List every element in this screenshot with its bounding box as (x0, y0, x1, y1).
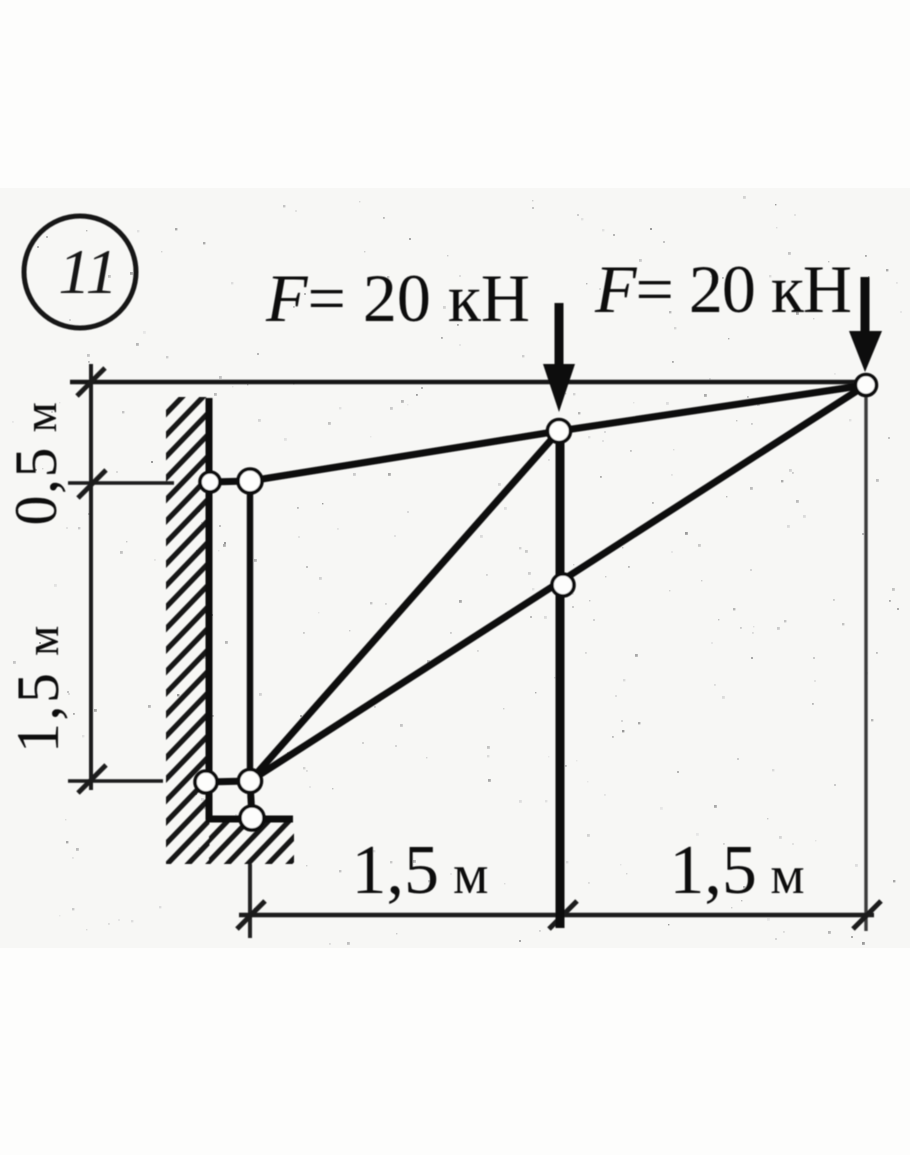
problem number circle (24, 216, 136, 328)
node B1 pin at wall bottom (195, 771, 217, 793)
wall hatching (160, 364, 214, 915)
member B2-C diagonal (250, 431, 559, 781)
scan noise speckles (12, 196, 902, 945)
node D (552, 574, 574, 596)
tick slash bottom at x=250 (237, 901, 265, 929)
tick slash top-left (77, 368, 105, 396)
node B3 support pin (240, 806, 264, 830)
force arrow 1 head (543, 364, 575, 412)
link B1-B2 (206, 781, 250, 782)
node A1 pin at wall top (200, 472, 220, 492)
node C (548, 420, 571, 443)
node E (856, 375, 877, 396)
extension line at y=483 (68, 481, 174, 484)
member B2-D-E bottom chord (250, 385, 866, 781)
tick slash bottom at x=866 (853, 901, 881, 929)
scan band tint (0, 188, 910, 948)
svg-text:1,5 м: 1,5 м (352, 832, 489, 909)
force arrow 2 head (849, 331, 882, 372)
dimension line vertical left (89, 364, 93, 790)
force arrow 2 shaft (861, 277, 870, 338)
force arrow 1 shaft (555, 303, 564, 372)
tick slash at 0.5m mark (78, 470, 106, 498)
tick slash at bottom-left mark (78, 765, 106, 793)
ground hatching under support (160, 820, 331, 870)
extension line below support x=250 (248, 864, 252, 938)
svg-text:11: 11 (58, 236, 117, 307)
extension line at y=781 (68, 779, 163, 782)
top chord line / dimension top line (70, 380, 866, 385)
member A2-C top chord left (250, 431, 559, 481)
svg-text:F= 20 кН: F= 20 кН (265, 260, 530, 336)
dimension line bottom (239, 913, 874, 918)
member C-D vertical + extension to dimension line (556, 431, 565, 928)
node B2 (239, 770, 262, 793)
ground line of support (206, 816, 293, 823)
svg-text:F= 20 кН: F= 20 кН (594, 251, 851, 327)
tick slash bottom at x=562 (549, 901, 577, 929)
link B2-B3 (250, 781, 252, 818)
wall edge line (206, 398, 213, 820)
extension line below node E x=866 (864, 394, 867, 931)
member A2-B2 vertical at wall (247, 481, 253, 781)
member C-E top chord right (559, 385, 866, 431)
node A2 (238, 469, 262, 493)
link A1-A2 (210, 481, 250, 482)
